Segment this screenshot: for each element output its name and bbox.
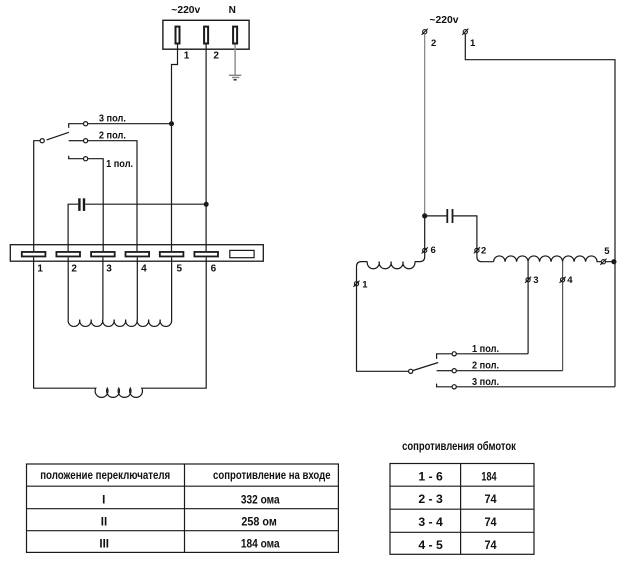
svg-text:сопротивления обмоток: сопротивления обмоток: [402, 441, 516, 453]
svg-text:3 - 4: 3 - 4: [418, 517, 443, 529]
svg-text:I: I: [102, 495, 105, 507]
svg-text:2: 2: [431, 38, 436, 49]
svg-text:4 - 5: 4 - 5: [418, 540, 443, 552]
svg-text:6: 6: [431, 245, 436, 256]
svg-text:сопротивление на входе: сопротивление на входе: [213, 470, 331, 482]
svg-text:332 ома: 332 ома: [241, 495, 280, 507]
svg-text:1: 1: [184, 51, 190, 62]
svg-text:4: 4: [141, 263, 147, 274]
svg-text:1: 1: [37, 263, 43, 274]
svg-text:II: II: [101, 517, 107, 529]
svg-text:5: 5: [604, 246, 610, 257]
svg-text:~220v: ~220v: [430, 15, 459, 26]
svg-text:3 пол.: 3 пол.: [472, 377, 499, 388]
svg-text:2 - 3: 2 - 3: [418, 494, 443, 506]
svg-text:1: 1: [362, 280, 368, 291]
svg-text:4: 4: [567, 275, 573, 286]
svg-text:положение переключателя: положение переключателя: [40, 470, 170, 482]
svg-text:~220v: ~220v: [171, 5, 200, 16]
svg-text:1 пол.: 1 пол.: [472, 344, 499, 355]
svg-text:III: III: [99, 539, 109, 551]
svg-text:184: 184: [481, 471, 497, 483]
svg-text:N: N: [229, 5, 236, 16]
svg-text:2: 2: [71, 263, 77, 274]
svg-text:3: 3: [533, 275, 538, 286]
svg-text:1 пол.: 1 пол.: [106, 159, 133, 170]
svg-text:184 ома: 184 ома: [241, 539, 280, 551]
svg-text:1 - 6: 1 - 6: [418, 471, 443, 483]
svg-text:2 пол.: 2 пол.: [99, 131, 126, 142]
svg-text:5: 5: [177, 263, 183, 274]
svg-text:3: 3: [106, 263, 112, 274]
svg-text:74: 74: [484, 517, 497, 529]
svg-text:2: 2: [213, 51, 219, 62]
svg-text:74: 74: [484, 540, 497, 552]
svg-text:3 пол.: 3 пол.: [99, 113, 126, 124]
svg-text:6: 6: [211, 263, 217, 274]
svg-text:74: 74: [484, 494, 497, 506]
svg-text:2: 2: [481, 246, 486, 257]
svg-text:258 ом: 258 ом: [241, 517, 276, 529]
svg-text:1: 1: [470, 38, 476, 49]
svg-text:2 пол.: 2 пол.: [472, 361, 499, 372]
